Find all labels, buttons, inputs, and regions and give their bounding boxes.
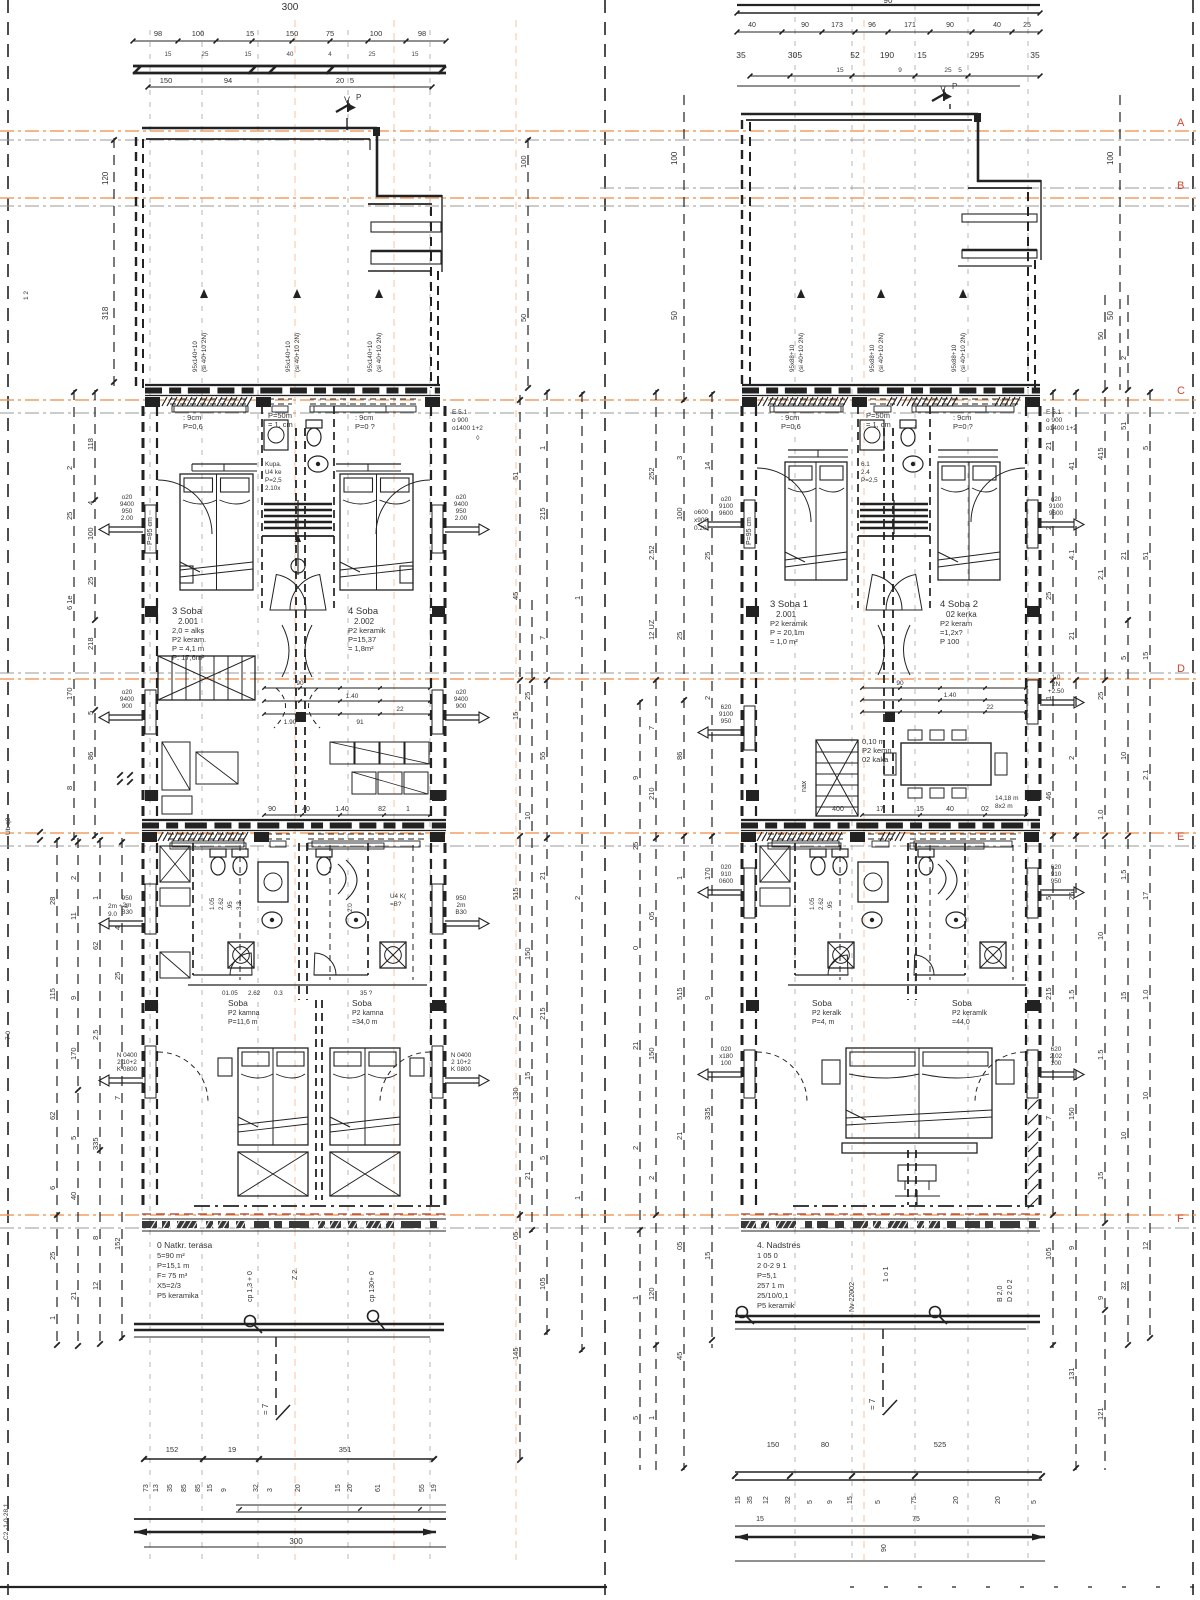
left plan lower bath partition left [193, 843, 252, 975]
left plan terrace bottom edge [134, 1324, 444, 1337]
svg-text:(si 40+10 2N): (si 40+10 2N) [376, 333, 383, 372]
svg-text:F= 75 m³: F= 75 m³ [157, 1271, 188, 1280]
svg-text:20: 20 [295, 1484, 302, 1492]
svg-text:1: 1 [631, 1296, 640, 1300]
svg-text:9: 9 [1096, 1296, 1105, 1300]
right plan upper bed 1 [785, 462, 847, 580]
svg-text:05: 05 [647, 912, 656, 920]
svg-text:51: 51 [1119, 422, 1128, 430]
left plan right wall lower [431, 843, 445, 1205]
svg-text:335: 335 [91, 1137, 100, 1150]
svg-text:9: 9 [1067, 1246, 1076, 1250]
svg-text:96: 96 [868, 22, 876, 29]
right plan left wall mid [742, 406, 756, 820]
svg-text:170: 170 [69, 1047, 78, 1060]
left plan lower bath 2 washer [380, 942, 406, 968]
svg-text:25: 25 [1096, 692, 1105, 700]
svg-text:50: 50 [1096, 332, 1105, 340]
svg-text:620: 620 [1051, 864, 1062, 871]
svg-text:20: 20 [347, 1484, 354, 1492]
svg-text:45: 45 [511, 592, 520, 600]
axis F gray [0, 1227, 1200, 1229]
right plan upper bath washer [860, 420, 884, 450]
svg-text:40: 40 [302, 806, 310, 813]
left plan upper bath toilet [306, 420, 322, 446]
left plan lower wardrobe 2 [330, 1152, 400, 1196]
svg-text:150: 150 [767, 1440, 780, 1449]
svg-text:9100: 9100 [719, 711, 734, 718]
svg-text:300: 300 [282, 2, 299, 13]
svg-text:8: 8 [91, 1236, 100, 1240]
svg-text:0,10 m: 0,10 m [862, 737, 885, 746]
svg-text:5: 5 [1031, 1500, 1038, 1504]
svg-text:E 5.1: E 5.1 [452, 409, 468, 416]
svg-text:21: 21 [675, 1132, 684, 1140]
right outer vertical chain 5 [1141, 389, 1153, 1342]
svg-text:25/10/0,1: 25/10/0,1 [757, 1291, 788, 1300]
svg-text:= 1,8m²: = 1,8m² [348, 644, 374, 653]
svg-text:25: 25 [202, 51, 209, 58]
right plan right wall upper (dashed) [1028, 192, 1035, 388]
svg-text:318: 318 [101, 306, 110, 320]
svg-text:21: 21 [631, 1042, 640, 1050]
sheet bottom border [0, 1586, 607, 1588]
left plan lower closet left strip [160, 846, 190, 978]
svg-text:25: 25 [86, 577, 95, 585]
svg-text:P=0,6: P=0,6 [183, 422, 203, 431]
svg-text:P=2,5: P=2,5 [265, 477, 282, 484]
right plan section line below terrace [868, 1329, 897, 1415]
svg-text:5: 5 [875, 1500, 882, 1504]
svg-text:25: 25 [1023, 22, 1031, 29]
svg-text:40: 40 [69, 1192, 78, 1200]
svg-text:25: 25 [675, 632, 684, 640]
right outer vertical chain 2 [1067, 389, 1079, 1471]
svg-text:50: 50 [519, 314, 528, 322]
left plan upper window bay [368, 222, 441, 271]
svg-text:2.5: 2.5 [91, 1030, 100, 1040]
svg-text:335: 335 [703, 1107, 712, 1120]
svg-text:100: 100 [721, 1060, 732, 1067]
svg-text:25: 25 [944, 67, 952, 74]
right plan terrace vertical notes [849, 1266, 1014, 1312]
svg-text:5: 5 [350, 76, 354, 85]
left plan party wall lower [299, 843, 322, 1200]
svg-text:7 0: 7 0 [5, 1031, 12, 1040]
svg-text:94: 94 [224, 76, 232, 85]
svg-text:950: 950 [122, 508, 133, 515]
svg-text:2.1: 2.1 [1141, 770, 1150, 780]
left plan left wall upper (dashed) [136, 137, 143, 388]
axis labels A-F [1177, 117, 1185, 1225]
svg-text:K 0800: K 0800 [451, 1066, 472, 1073]
svg-text:90: 90 [881, 1544, 888, 1552]
svg-text:75: 75 [912, 1516, 920, 1523]
stair landing lines [262, 535, 930, 537]
svg-text:9.0: 9.0 [108, 911, 117, 918]
svg-text:95x140+10: 95x140+10 [285, 341, 292, 372]
svg-text:: 9cm: : 9cm [355, 413, 373, 422]
svg-text:21: 21 [1044, 442, 1053, 450]
svg-text:32: 32 [1119, 1282, 1128, 1290]
svg-text:15: 15 [246, 29, 254, 38]
left plan interior dim rows [262, 680, 432, 726]
svg-text:150: 150 [647, 1047, 656, 1060]
svg-text:7: 7 [647, 726, 656, 730]
svg-text:20: 20 [995, 1496, 1002, 1504]
svg-text:1 05 0: 1 05 0 [757, 1251, 778, 1260]
svg-text:0600: 0600 [719, 878, 734, 885]
svg-text:86: 86 [675, 752, 684, 760]
svg-text:3 Soba: 3 Soba [172, 606, 203, 617]
svg-text:11: 11 [69, 912, 78, 920]
left plan lower bath 1 sink [262, 912, 282, 928]
svg-text:15: 15 [917, 50, 927, 60]
svg-text:85: 85 [181, 1484, 188, 1492]
right plan lower bath 1 washer [828, 942, 854, 968]
right plan lower bath 1 texts [809, 897, 834, 910]
svg-text:21: 21 [1067, 632, 1076, 640]
left plan upper bath text [265, 461, 282, 492]
right plan lower partitions light [840, 845, 1013, 980]
svg-text:5: 5 [69, 1136, 78, 1140]
svg-text:95x140+10: 95x140+10 [192, 341, 199, 372]
svg-text:cp 130+ 0: cp 130+ 0 [369, 1271, 376, 1302]
left plan lower bath 2 toilet [316, 849, 332, 875]
svg-text:86: 86 [86, 752, 95, 760]
svg-text:P=50m: P=50m [866, 411, 890, 420]
svg-text:80: 80 [821, 1440, 829, 1449]
svg-text:=34,0 m: =34,0 m [352, 1019, 378, 1026]
svg-text:15: 15 [836, 67, 844, 74]
left plan top-right chain 100 [519, 137, 531, 391]
svg-text:B30: B30 [121, 909, 133, 916]
svg-text:D 2 0 2: D 2 0 2 [1007, 1279, 1014, 1302]
svg-text:7: 7 [1044, 1116, 1053, 1120]
svg-text:P5 keramik: P5 keramik [757, 1301, 795, 1310]
svg-text:3: 3 [267, 1488, 274, 1492]
svg-text:25: 25 [1067, 892, 1076, 900]
svg-text:910: 910 [721, 871, 732, 878]
svg-text:F: F [1177, 1213, 1184, 1225]
svg-text:35: 35 [1030, 50, 1040, 60]
svg-text:51: 51 [511, 472, 520, 480]
svg-text:190: 190 [880, 50, 894, 60]
right plan numbers above slab [832, 806, 1028, 817]
svg-text:P2 keram: P2 keram [940, 619, 972, 628]
svg-text:171: 171 [904, 22, 916, 29]
right plan right wall mid [1026, 406, 1040, 820]
axis C gray [0, 412, 1200, 414]
svg-text:K 0800: K 0800 [117, 1066, 138, 1073]
svg-text:A: A [1177, 117, 1185, 129]
grid vertical lines left plan [150, 30, 430, 1560]
axis F orange [0, 1214, 1200, 1216]
svg-text:P=2,5: P=2,5 [861, 477, 878, 484]
svg-text:o20: o20 [122, 494, 133, 501]
svg-text:2.62: 2.62 [218, 897, 225, 910]
svg-text:900: 900 [122, 703, 133, 710]
svg-text:10: 10 [1119, 1132, 1128, 1140]
right plan hall door arcs [866, 575, 922, 676]
svg-text:o20: o20 [1051, 496, 1062, 503]
svg-text:215: 215 [1044, 987, 1053, 1000]
svg-text:1: 1 [647, 1416, 656, 1420]
svg-text:◊: ◊ [476, 435, 480, 442]
svg-text:: 9cm: : 9cm [781, 413, 799, 422]
svg-text:46: 46 [1044, 792, 1053, 800]
svg-text:1: 1 [1044, 696, 1053, 700]
svg-text:1: 1 [91, 896, 100, 900]
svg-text:P2 keram.: P2 keram. [172, 635, 206, 644]
right plan interior dim rows [860, 680, 1028, 714]
svg-text:35: 35 [747, 1496, 754, 1504]
right plan right wall lower [1026, 843, 1040, 1205]
right plan party wall mid [884, 428, 893, 815]
svg-text:41: 41 [1067, 462, 1076, 470]
left plan roof corner blob [373, 127, 380, 136]
svg-text:1.05: 1.05 [209, 897, 216, 910]
left outer vertical chain 2 [65, 389, 77, 841]
svg-text:950: 950 [122, 895, 133, 902]
svg-text:9600: 9600 [719, 510, 734, 517]
svg-text:1.5: 1.5 [1119, 870, 1128, 880]
svg-text:2: 2 [1044, 526, 1053, 530]
svg-text:400: 400 [832, 806, 844, 813]
svg-text:1.5: 1.5 [1067, 990, 1076, 1000]
left plan terrace label [157, 1240, 213, 1300]
svg-text:2: 2 [573, 896, 582, 900]
svg-text:257 1 m: 257 1 m [757, 1281, 784, 1290]
svg-text:1: 1 [573, 596, 582, 600]
left plan lower bath partition right [314, 843, 368, 975]
mid vertical chain 4 [631, 699, 643, 1470]
left plan terrace drain loops [245, 1311, 386, 1334]
svg-text:2.001: 2.001 [178, 617, 199, 626]
svg-text:= 7: = 7 [868, 1398, 877, 1410]
svg-text:4. Nadstres: 4. Nadstres [757, 1240, 800, 1250]
svg-text:01.05: 01.05 [222, 990, 238, 997]
svg-text:5: 5 [1044, 896, 1053, 900]
svg-text:nax: nax [801, 780, 808, 792]
svg-text:9: 9 [631, 776, 640, 780]
right plan terrace edge band [741, 1206, 1040, 1231]
right plan dining table [884, 730, 1007, 798]
left plan lower bath 2 sink [346, 912, 366, 928]
svg-text:o 900: o 900 [1046, 417, 1063, 424]
svg-text:P=5,1: P=5,1 [757, 1271, 777, 1280]
left plan lower bed 2 [330, 1048, 400, 1145]
svg-text:= 1, cm: = 1, cm [268, 420, 293, 429]
svg-text:4 Soba 2: 4 Soba 2 [940, 599, 978, 610]
svg-text:85: 85 [195, 1484, 202, 1492]
svg-text:95x88+10: 95x88+10 [789, 344, 796, 372]
svg-text:2 10+2: 2 10+2 [451, 1059, 471, 1066]
svg-text:25: 25 [1044, 592, 1053, 600]
svg-text:8x2 m: 8x2 m [995, 803, 1013, 810]
left sheet fold line [7, 0, 9, 1595]
svg-text:2.10x: 2.10x [265, 485, 281, 492]
svg-text:2: 2 [69, 876, 78, 880]
svg-text:1.40: 1.40 [335, 806, 349, 813]
svg-text:62: 62 [48, 1112, 57, 1120]
svg-text:215: 215 [538, 1007, 547, 1020]
svg-text:D: D [1177, 663, 1185, 675]
svg-text:2 10+2: 2 10+2 [117, 1059, 137, 1066]
svg-text:95x88+10: 95x88+10 [869, 344, 876, 372]
svg-text:02 kerka: 02 kerka [946, 610, 977, 619]
svg-text:x180: x180 [719, 1053, 733, 1060]
svg-text:= 7: = 7 [261, 1403, 270, 1415]
right sheet fold line [1192, 0, 1194, 1595]
left plan terrace edge band [142, 1206, 446, 1231]
right plan upper right vertical dim 100 [1106, 95, 1120, 390]
svg-text:3: 3 [675, 456, 684, 460]
svg-text:P = 4,1 m: P = 4,1 m [172, 644, 204, 653]
svg-text:P2 keramlk: P2 keramlk [952, 1010, 988, 1017]
axis B gray upper [600, 187, 1200, 189]
svg-text:12: 12 [763, 1496, 770, 1504]
left plan kitchen counters right unit [330, 742, 430, 794]
svg-text:6.1: 6.1 [861, 461, 870, 468]
left plan upper area vertical dim 120 [101, 137, 117, 390]
svg-text:4: 4 [113, 926, 122, 930]
svg-text:215: 215 [538, 507, 547, 520]
svg-text:5: 5 [1119, 656, 1128, 660]
svg-text:22: 22 [986, 704, 994, 711]
left plan upper bedroom 1 wardrobe [192, 464, 257, 471]
text cluster left of right plan band C [694, 509, 709, 532]
svg-text:131: 131 [1067, 1367, 1076, 1380]
svg-text:525: 525 [934, 1440, 947, 1449]
svg-text:P=0 ?: P=0 ? [953, 422, 973, 431]
svg-text:Z 2.: Z 2. [292, 1268, 299, 1280]
svg-text:15: 15 [1119, 992, 1128, 1000]
left plan lower hall numbers [222, 990, 373, 997]
svg-text:N 0400: N 0400 [451, 1052, 472, 1059]
svg-text:9: 9 [69, 996, 78, 1000]
svg-text:P=95 cm: P=95 cm [147, 517, 154, 545]
axis B gray [0, 205, 1200, 207]
left page edge notes [3, 291, 30, 1540]
svg-text:9400: 9400 [120, 501, 135, 508]
left lower vertical chain 1 [48, 837, 60, 1348]
left plan party wall mid [296, 428, 305, 815]
svg-text:4: 4 [328, 51, 332, 58]
right plan upper bath toilet [900, 420, 916, 446]
svg-text:0 Natkr. terasa: 0 Natkr. terasa [157, 1240, 213, 1250]
right plan left wall lower [742, 843, 756, 1205]
left lower vertical chain 4 [113, 838, 125, 1341]
right plan lower bath partition right [914, 843, 965, 975]
svg-text:100: 100 [519, 155, 528, 168]
svg-text:620: 620 [1051, 1046, 1062, 1053]
svg-text:15: 15 [335, 1484, 342, 1492]
svg-text:5: 5 [86, 711, 95, 715]
svg-text:19: 19 [228, 1445, 236, 1454]
svg-text:Soba: Soba [352, 998, 372, 1008]
svg-text:950: 950 [456, 508, 467, 515]
svg-text:P2 keralk: P2 keralk [812, 1010, 842, 1017]
svg-text:02: 02 [981, 806, 989, 813]
svg-text:(si 40+10 2N): (si 40+10 2N) [960, 333, 967, 372]
svg-text:15: 15 [245, 51, 252, 58]
svg-text:2.002: 2.002 [354, 617, 375, 626]
svg-text:: 9cm: : 9cm [183, 413, 201, 422]
svg-text:0: 0 [631, 946, 640, 950]
svg-text:2: 2 [703, 696, 712, 700]
left plan right-side chain 2 [538, 389, 550, 1342]
axis E orange [0, 832, 1200, 834]
left plan window symbols left wall [99, 494, 143, 535]
left plan upper bed 2 nightstand [400, 566, 413, 583]
svg-text:15: 15 [523, 1072, 532, 1080]
svg-text:9100: 9100 [1049, 503, 1064, 510]
right plan terrace drain loops [737, 1307, 948, 1325]
svg-text:(si 40+10 2N): (si 40+10 2N) [878, 333, 885, 372]
left plan lower room labels [228, 998, 384, 1026]
right plan lower bath 1 shower [858, 862, 888, 902]
svg-text:620: 620 [721, 704, 732, 711]
right plan upper bath text [861, 461, 878, 484]
left plan terrace vertical notes [247, 1268, 376, 1302]
text cluster right of right plan band C [1046, 409, 1077, 432]
left plan lower bath 2 texts [347, 893, 407, 912]
svg-text:+2.50: +2.50 [1048, 688, 1065, 695]
svg-text:40: 40 [287, 51, 294, 58]
svg-text:9: 9 [703, 996, 712, 1000]
left plan lower bath 1 toilet [210, 849, 226, 875]
svg-text:910: 910 [1051, 871, 1062, 878]
left outer vertical chain 1 [86, 389, 98, 839]
svg-text:P = 20,1m: P = 20,1m [770, 628, 804, 637]
right outer vertical chain 1 [1044, 389, 1056, 1348]
svg-text:4.1: 4.1 [1067, 550, 1076, 560]
svg-text:5: 5 [631, 1416, 640, 1420]
right plan roof outline top [741, 113, 978, 182]
svg-text:105: 105 [1044, 1247, 1053, 1260]
svg-text:50: 50 [1106, 311, 1115, 320]
svg-text:8: 8 [65, 786, 74, 790]
svg-text:120: 120 [647, 1287, 656, 1300]
svg-text:105: 105 [538, 1277, 547, 1290]
svg-text:020: 020 [721, 864, 732, 871]
right plan sill labels [770, 406, 986, 431]
right plan upper bath partition right [929, 406, 931, 608]
svg-text:150: 150 [286, 29, 299, 38]
svg-text:55: 55 [419, 1484, 426, 1492]
svg-text:15: 15 [735, 1496, 742, 1504]
svg-text:1: 1 [406, 806, 410, 813]
svg-text:P: P [356, 93, 361, 102]
svg-text:51: 51 [1141, 552, 1150, 560]
right plan slab band at axis E [741, 820, 1040, 847]
left plan lower bath 1 bidet [232, 849, 248, 875]
svg-text:2.02: 2.02 [1050, 1053, 1063, 1060]
svg-text:5: 5 [807, 1500, 814, 1504]
right plan upper bed 2 wardrobe [938, 450, 998, 457]
right plan upper room label 2 [940, 599, 978, 646]
svg-text:20: 20 [953, 1496, 960, 1504]
svg-text:20: 20 [336, 76, 344, 85]
tick cluster left of slab E [37, 772, 133, 843]
svg-text:170: 170 [65, 687, 74, 700]
svg-text:B 2,0: B 2,0 [997, 1286, 1004, 1302]
right plan lower table [895, 1165, 940, 1205]
svg-text:2: 2 [65, 466, 74, 470]
left plan right wall upper (dashed) [431, 207, 438, 388]
svg-text:305: 305 [788, 50, 802, 60]
